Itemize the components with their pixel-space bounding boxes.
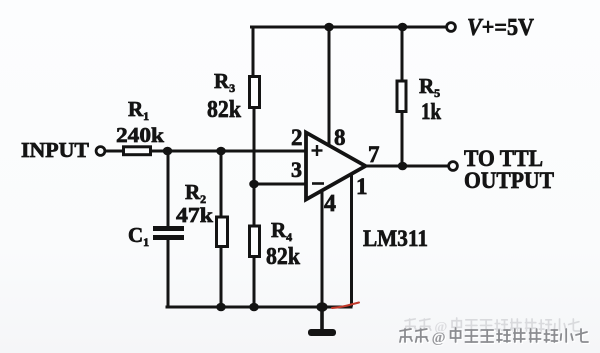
wire: R4 bottom to ground rail xyxy=(253,258,256,307)
wire: R3 column from rail to R3 top xyxy=(252,27,255,76)
node: junction dot ground rail R2 xyxy=(216,303,226,312)
terminal: input open circle xyxy=(96,147,105,156)
wire: ground stub xyxy=(320,307,324,330)
svg-text:240k: 240k xyxy=(116,123,164,147)
red ink mark near ground xyxy=(332,303,359,309)
wire: R2 top stub xyxy=(220,151,223,216)
wire: pin 8 from rail to op-amp top edge xyxy=(328,27,331,146)
resistor R1 body xyxy=(124,147,151,155)
wire: pin 1 down to ground rail xyxy=(350,174,353,305)
terminal: output open circle xyxy=(449,162,458,171)
svg-text:2: 2 xyxy=(291,125,303,150)
svg-text:8: 8 xyxy=(334,125,346,150)
wire: pin 4 down to ground rail xyxy=(321,191,324,307)
terminal: V+ open circle xyxy=(447,23,456,32)
node: junction dot input/C1 xyxy=(163,147,173,156)
wire: R5 column from rail to R5 top xyxy=(401,27,404,80)
svg-text:3: 3 xyxy=(291,157,302,182)
watermark emboss highlight xyxy=(401,329,589,347)
node: junction dot pin3/R3/R4 xyxy=(249,180,259,189)
wire: R5 bottom to output node xyxy=(401,113,404,166)
capacitor C1 plates xyxy=(153,226,184,240)
wire: R3 bottom to R4 top (crosses pin2 wire, joins pin3 node) xyxy=(253,109,256,225)
ground symbol bar xyxy=(308,329,336,336)
svg-text:@: @ xyxy=(432,330,446,346)
watermark light gray CJK-like glyphs xyxy=(405,318,580,335)
node: junction dot on rail at R5 column xyxy=(398,23,408,32)
node: junction dot ground node xyxy=(316,302,327,312)
svg-text:V+=5V: V+=5V xyxy=(467,15,535,41)
svg-text:1k: 1k xyxy=(421,99,441,124)
node: junction dot input/R2 xyxy=(216,147,226,156)
op-amp U1 triangle xyxy=(306,133,366,200)
wire: pin 3 from node to op-amp - xyxy=(254,183,306,186)
svg-text:OUTPUT: OUTPUT xyxy=(464,168,554,193)
svg-text:INPUT: INPUT xyxy=(21,138,89,162)
watermark dark gray CJK-like glyphs xyxy=(400,328,588,346)
wire: pin 2 input run (R1 to op-amp +) xyxy=(151,150,306,153)
svg-text:LM311: LM311 xyxy=(363,226,428,252)
resistor R3 body xyxy=(250,77,260,108)
svg-text:47k: 47k xyxy=(176,203,213,227)
wire: pin 7 output run xyxy=(365,165,448,168)
resistor R4 body xyxy=(250,226,260,257)
wire: ground rail xyxy=(167,306,351,309)
node: junction dot output/R5 xyxy=(398,162,408,171)
resistor R5 body xyxy=(397,81,406,112)
wire: C1 bottom stub xyxy=(167,240,170,307)
node: junction dot ground rail R4 xyxy=(249,303,259,312)
svg-text:7: 7 xyxy=(368,142,380,167)
op-amp + input mark xyxy=(312,145,323,156)
op-amp - input mark xyxy=(312,182,324,185)
wire: C1 top stub xyxy=(167,151,170,226)
wire: V+ top rail xyxy=(252,26,447,29)
svg-text:1: 1 xyxy=(356,174,368,199)
svg-text:82k: 82k xyxy=(207,97,242,123)
node: junction dot on rail at pin8 column xyxy=(324,23,334,32)
svg-text:4: 4 xyxy=(324,191,336,217)
resistor R2 body xyxy=(217,217,228,247)
svg-text:82k: 82k xyxy=(266,244,301,270)
wire: R2 bottom stub xyxy=(220,248,223,307)
wire: input to R1 xyxy=(105,150,123,153)
